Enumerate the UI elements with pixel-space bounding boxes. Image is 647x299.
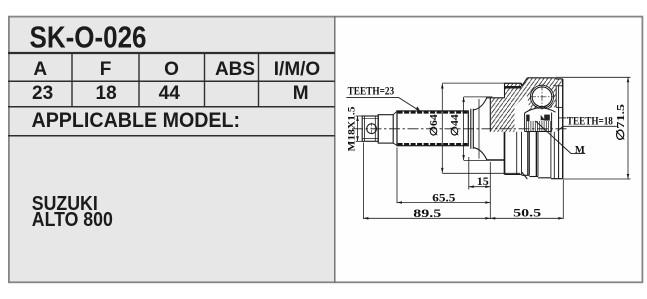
svg-text:50.5: 50.5 <box>513 205 541 219</box>
svg-text:A: A <box>33 59 47 80</box>
svg-text:TEETH=18: TEETH=18 <box>567 114 613 128</box>
svg-text:89.5: 89.5 <box>413 206 441 220</box>
svg-text:TEETH=23: TEETH=23 <box>348 84 395 98</box>
svg-text:F: F <box>100 59 112 80</box>
svg-text:∅44: ∅44 <box>450 114 461 136</box>
svg-text:18: 18 <box>96 83 117 104</box>
svg-text:APPLICABLE MODEL:: APPLICABLE MODEL: <box>32 108 241 132</box>
svg-text:65.5: 65.5 <box>432 190 455 204</box>
svg-text:O: O <box>164 59 179 80</box>
svg-text:M: M <box>575 145 585 156</box>
svg-text:44: 44 <box>159 83 181 104</box>
svg-text:M18X1.5: M18X1.5 <box>347 106 357 152</box>
svg-text:ABS: ABS <box>215 59 255 80</box>
svg-text:SK-O-026: SK-O-026 <box>30 20 147 54</box>
svg-text:M: M <box>293 83 309 104</box>
svg-text:23: 23 <box>32 83 53 104</box>
svg-text:I/M/O: I/M/O <box>274 59 320 80</box>
svg-text:ALTO 800: ALTO 800 <box>32 209 113 231</box>
svg-text:∅64: ∅64 <box>429 114 440 136</box>
svg-text:15: 15 <box>477 174 489 188</box>
svg-text:∅71.5: ∅71.5 <box>615 103 627 141</box>
